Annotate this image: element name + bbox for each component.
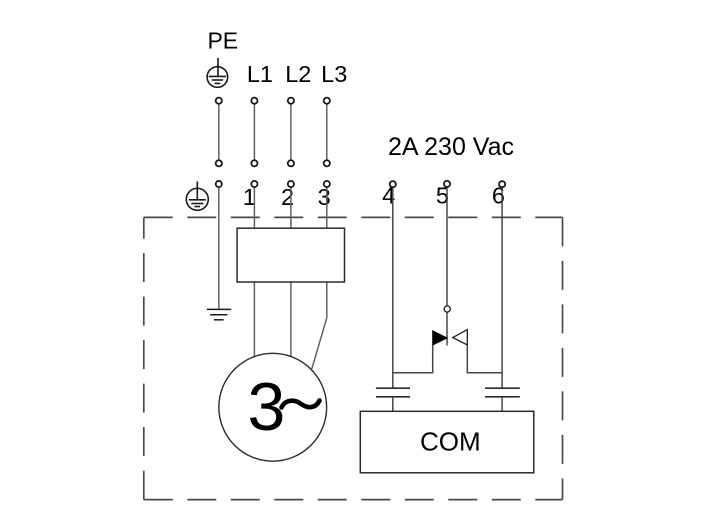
svg-text:L2: L2 [285,61,311,87]
svg-text:COM: COM [420,426,481,456]
svg-text:PE: PE [207,28,238,54]
svg-text:L3: L3 [321,61,347,87]
svg-text:L1: L1 [247,61,273,87]
svg-text:2A 230 Vac: 2A 230 Vac [388,133,514,161]
svg-text:3: 3 [318,184,331,210]
